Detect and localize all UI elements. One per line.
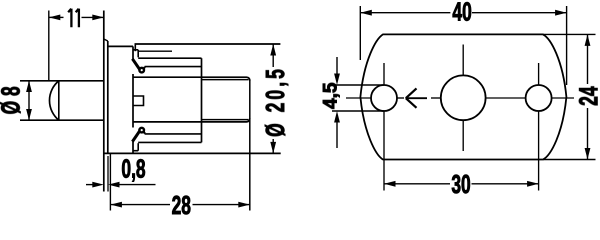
button plunger bottom edge + diameter 8 extension (20, 119, 104, 121)
dimension 0,8 right arrow (outside, pointing left) with tail (120, 184, 156, 186)
flange front face line + ext for 11 and 0,8 (103, 11, 105, 192)
left hole vertical centerline upper tick (383, 63, 385, 85)
cylinder right end face (201, 58, 203, 142)
snap claw rounded tip (top) (139, 68, 144, 73)
svg-text:28: 28 (172, 191, 191, 217)
detent window rectangle on housing (133, 96, 144, 106)
housing mid vertical wall (132, 74, 134, 128)
left mounting hole (371, 85, 397, 111)
terminal blade inner top edge (202, 79, 249, 81)
inner step line B2 from claw tip (bottom) (145, 133, 202, 135)
housing snap-arm bottom region: arm end vertical (bottom) (132, 141, 134, 153)
svg-text:Ø 8: Ø 8 (0, 86, 25, 114)
wire: dimension 11 left extension line (48, 11, 50, 81)
terminal blade right end face + 28 right extension (249, 80, 251, 211)
snap claw diagonal (bottom) (132, 131, 140, 142)
cylinder body top line + diameter 20,5 top extension (135, 43, 281, 45)
terminal blade outer top edge (133, 77, 250, 81)
notch right vertical (top) (137, 50, 139, 58)
horizontal centerline left segment (346, 97, 371, 99)
button plunger front arc (49, 81, 58, 120)
hidden slot stub (top) (139, 50, 173, 52)
mounting plate outline (360, 34, 566, 159)
dimension 28 dim line with arrows (110, 204, 170, 206)
notch bottom horizontal (133, 150, 138, 152)
snap claw rounded tip (bottom) (139, 128, 144, 133)
housing arm end vertical (top) (132, 46, 134, 59)
right hole vertical centerline upper tick (538, 63, 540, 85)
inner step line A (top) (138, 57, 201, 59)
centre hole (441, 75, 486, 120)
dimension 30 dim line with arrows (384, 183, 450, 185)
button plunger top edge + diameter 8 extension (20, 80, 104, 82)
center hole vertical centerline upper tick (462, 45, 464, 75)
center hole vertical centerline lower tick (462, 121, 464, 151)
svg-text:24: 24 (574, 86, 600, 106)
horizontal centerline rightmost segment (552, 97, 574, 99)
notch top: horizontal (133, 49, 138, 51)
dimension 24 extension lines (543, 33, 596, 35)
dimension 4,5 extension lines (332, 84, 384, 86)
flange back face line (107, 41, 109, 154)
inner step line B from claw tip (top) (145, 66, 202, 68)
right hole vertical centerline lower tick + 30 right extension (538, 111, 540, 190)
svg-text:30: 30 (451, 170, 470, 199)
horizontal centerline segment right of centre hole (486, 97, 526, 99)
dimension 4,5 lower arrow (outside, pointing up) (336, 123, 338, 149)
inner step line A2 (bottom) (138, 141, 201, 143)
flange top cap (104, 39, 108, 41)
button plunger chord line (58, 81, 60, 120)
value label 11 (68, 9, 71, 28)
notch right vertical (bottom) (137, 143, 139, 151)
wire: 28 left extension line (109, 153, 111, 210)
dimension 40 extension lines (359, 6, 361, 60)
svg-text:4,5: 4,5 (321, 82, 342, 109)
dimension 4,5 upper arrow (outside, pointing down) (336, 57, 338, 74)
horizontal centerline segment between left hole and arrow (397, 97, 404, 99)
housing snap-arm top edge (108, 45, 133, 47)
left hole vertical centerline lower tick + 30 left extension (383, 111, 385, 190)
cylinder top connector vertical (134, 44, 136, 51)
dimension diameter 20,5 dim line with arrows (272, 44, 274, 67)
leader arrow pointing at left hole (406, 88, 417, 107)
svg-text:0,8: 0,8 (121, 154, 145, 183)
dimension 0,8 left arrow (outside, pointing right) (86, 184, 93, 186)
dimension 40 dim line with arrows (360, 12, 450, 14)
horizontal centerline segment between arrow and centre hole (431, 97, 440, 99)
cylinder body bottom line + diameter 20,5 bottom extension (104, 152, 281, 154)
terminal blade outer bottom edge (133, 118, 250, 122)
dimension diameter 8 dim line with arrows (28, 81, 30, 120)
snap claw diagonal (top) (132, 59, 140, 70)
terminal blade inner bottom edge (202, 119, 249, 121)
wire: flange back face extension for 0,8 (107, 156, 109, 192)
svg-text:Ø 20,5: Ø 20,5 (261, 69, 290, 137)
dimension 11 dim line with arrows (49, 16, 64, 18)
dimension 24 dim line with arrows (587, 34, 589, 84)
right mounting hole (526, 85, 552, 111)
svg-text:40: 40 (452, 0, 471, 27)
